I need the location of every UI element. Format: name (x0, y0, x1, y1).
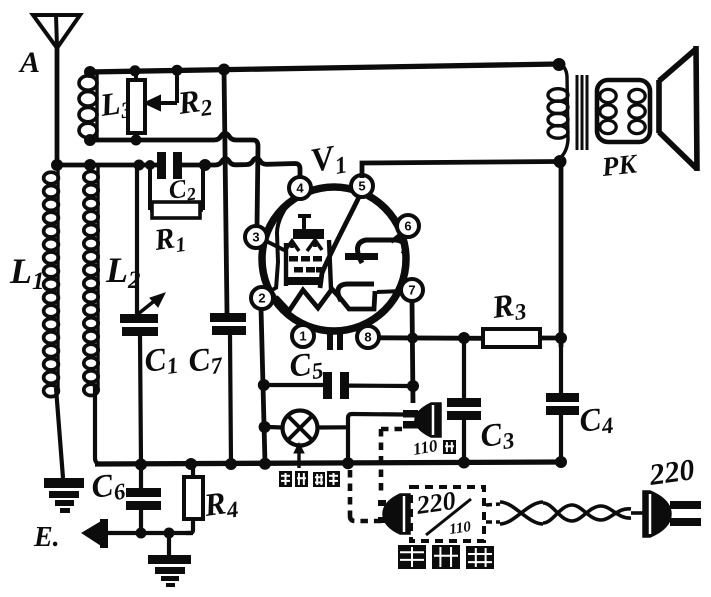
label C2 (167, 173, 197, 207)
node R2 top (130, 65, 141, 76)
output transformer secondary (597, 80, 650, 142)
capacitor C6 (126, 464, 161, 533)
wire grid bus (antenna to C2) (55, 163, 157, 168)
tube internal right grid bar (345, 253, 378, 260)
lamp (268, 411, 348, 446)
tube internal pin6 lead (391, 232, 403, 242)
resistor R1 (150, 165, 203, 218)
svg-text:6: 6 (404, 219, 411, 234)
tube internal grid stub (298, 216, 311, 230)
coil L3 (79, 74, 97, 139)
node C5 right (407, 380, 419, 392)
dashed wire plug to transformer box (381, 429, 402, 496)
label C3 (478, 414, 516, 457)
node R1 left (145, 160, 155, 170)
label L3 (97, 83, 134, 126)
node R2 wiper top (172, 65, 183, 76)
node transformer bottom (554, 155, 567, 168)
node pin7/pin8 junction (407, 333, 418, 344)
node bus tube cathode line (259, 458, 271, 470)
transformer box 220/110 (411, 486, 484, 541)
wire R2 bottom to pin3 (88, 133, 258, 226)
tube internal right plate lower (338, 284, 374, 301)
label C1 (142, 339, 180, 382)
node C6 bottom (136, 528, 147, 539)
resistor R3 (483, 329, 562, 347)
label L1 (9, 251, 45, 295)
svg-text:PK: PK (599, 148, 639, 182)
svg-text:220: 220 (646, 453, 696, 492)
label C7 (186, 339, 225, 382)
label 110V (411, 436, 456, 459)
tube internal pin3 lead (264, 240, 284, 250)
wire rail to C7 (224, 69, 227, 313)
speaker PK (659, 46, 697, 171)
tube pin 1 (292, 325, 314, 347)
wire grid to pin4 (182, 158, 300, 178)
tube internal pin7 lead (377, 291, 402, 292)
node L2 top (84, 159, 96, 171)
C1 trimmer arrow (133, 293, 165, 318)
capacitor C4 (546, 347, 579, 462)
wire pin7 down (412, 300, 413, 403)
plug 110V (chassis inlet) (403, 403, 441, 437)
node bus C3 (458, 457, 470, 469)
node bus lamp branch (342, 457, 354, 469)
tube internal grid dashes row2 (294, 267, 325, 273)
node R3 left / C3 top (458, 332, 470, 344)
tube internal heater zigzag (276, 289, 375, 311)
tube internal heater prongs (327, 332, 343, 350)
lamp pointer arrow (294, 443, 304, 468)
wire pin5 to output transformer (362, 162, 558, 179)
svg-text:2: 2 (258, 291, 265, 306)
svg-text:1: 1 (299, 329, 306, 344)
node R3 right (555, 332, 567, 344)
node ground drop (164, 528, 175, 539)
svg-text:110: 110 (448, 519, 472, 538)
label R1 (151, 220, 187, 260)
wire bottom (E to R4) (105, 531, 193, 535)
wire pin8 to R3 (378, 335, 483, 340)
tube internal cage right wall (329, 240, 331, 289)
label R4 (201, 483, 240, 526)
label C6 (89, 465, 127, 508)
coil L1 (44, 168, 63, 478)
tube internal anode left support (276, 194, 296, 289)
node antenna junction (51, 159, 63, 171)
svg-text:5: 5 (358, 179, 365, 194)
node transformer top (553, 58, 566, 71)
label A (18, 46, 40, 79)
node C1 branch (134, 160, 145, 171)
capacitor C1 (120, 165, 158, 464)
coil L2 (84, 167, 106, 464)
node C5 left (258, 379, 270, 391)
tube internal top bar (293, 229, 324, 239)
label V1 (308, 137, 349, 183)
label C4 (577, 399, 615, 442)
tube pin 2 (251, 287, 273, 309)
svg-text:4: 4 (296, 181, 304, 196)
svg-text:7: 7 (408, 283, 415, 298)
node C2 right (199, 159, 211, 171)
node C7 top rail (218, 64, 230, 76)
capacitor C7 (210, 313, 246, 464)
tube pin 6 (397, 215, 419, 237)
ground (chassis) (148, 533, 191, 587)
ground (L1) (44, 478, 84, 513)
tube internal cage left wall (284, 243, 288, 286)
tube internal cage bottom (287, 277, 321, 285)
dashed wire bus to transformer box (350, 470, 382, 521)
tube internal cage spikes (284, 240, 322, 252)
tube internal right plate upper (357, 240, 404, 263)
svg-text:E.: E. (33, 522, 60, 553)
resistor R4 (184, 464, 203, 533)
svg-text:A: A (18, 46, 40, 79)
tube internal grid dashes row1 (289, 256, 322, 262)
label C5 (287, 344, 325, 387)
wire pin2 down to bus (261, 308, 265, 463)
wire ground bus (95, 462, 561, 464)
twisted lamp cord (486, 502, 644, 524)
R2 wiper arrow (145, 71, 177, 110)
output transformer primary (548, 64, 568, 168)
node L3 bottom (84, 134, 96, 146)
tube internal pin5 diagonal (320, 197, 359, 288)
node bus C1/C6 (135, 459, 147, 471)
tube V1 envelope (262, 187, 406, 331)
label transformer (hanzi) (398, 545, 494, 569)
node lamp left (259, 421, 271, 433)
tube pin 4 (289, 177, 311, 199)
svg-text:8: 8 (364, 330, 371, 345)
wire transformer to R3/C4 (559, 162, 564, 347)
terminal E (83, 519, 108, 548)
wire lamp to plug (348, 414, 403, 462)
label E (33, 522, 60, 553)
label R2 (175, 81, 214, 124)
node L3 top (84, 66, 96, 78)
plug (110V into box) (378, 494, 410, 534)
antenna A (33, 15, 80, 166)
transformer core (577, 75, 587, 150)
tube pin 5 (351, 175, 373, 197)
node bus C7 (225, 458, 237, 470)
label PK (599, 148, 639, 182)
node R2 bottom (131, 135, 142, 146)
svg-text:3: 3 (252, 230, 259, 245)
label 220 (646, 453, 696, 492)
tube pin 8 (357, 326, 379, 348)
label switch (hanzi) (279, 471, 340, 487)
capacitor C2 (157, 152, 182, 179)
tube pin 7 (401, 279, 423, 301)
wire top rail (88, 64, 558, 72)
label L2 (105, 250, 141, 294)
capacitor C3 (447, 338, 481, 462)
plug 220V (wall) (643, 491, 701, 537)
capacitor C5 (268, 372, 409, 399)
tube internal pin2 lead (266, 287, 277, 294)
node bus R4 (185, 458, 197, 470)
tube pin 3 (245, 226, 267, 248)
resistor R2 (128, 70, 145, 141)
node bus C4 end (555, 456, 567, 468)
label R3 (489, 285, 528, 328)
